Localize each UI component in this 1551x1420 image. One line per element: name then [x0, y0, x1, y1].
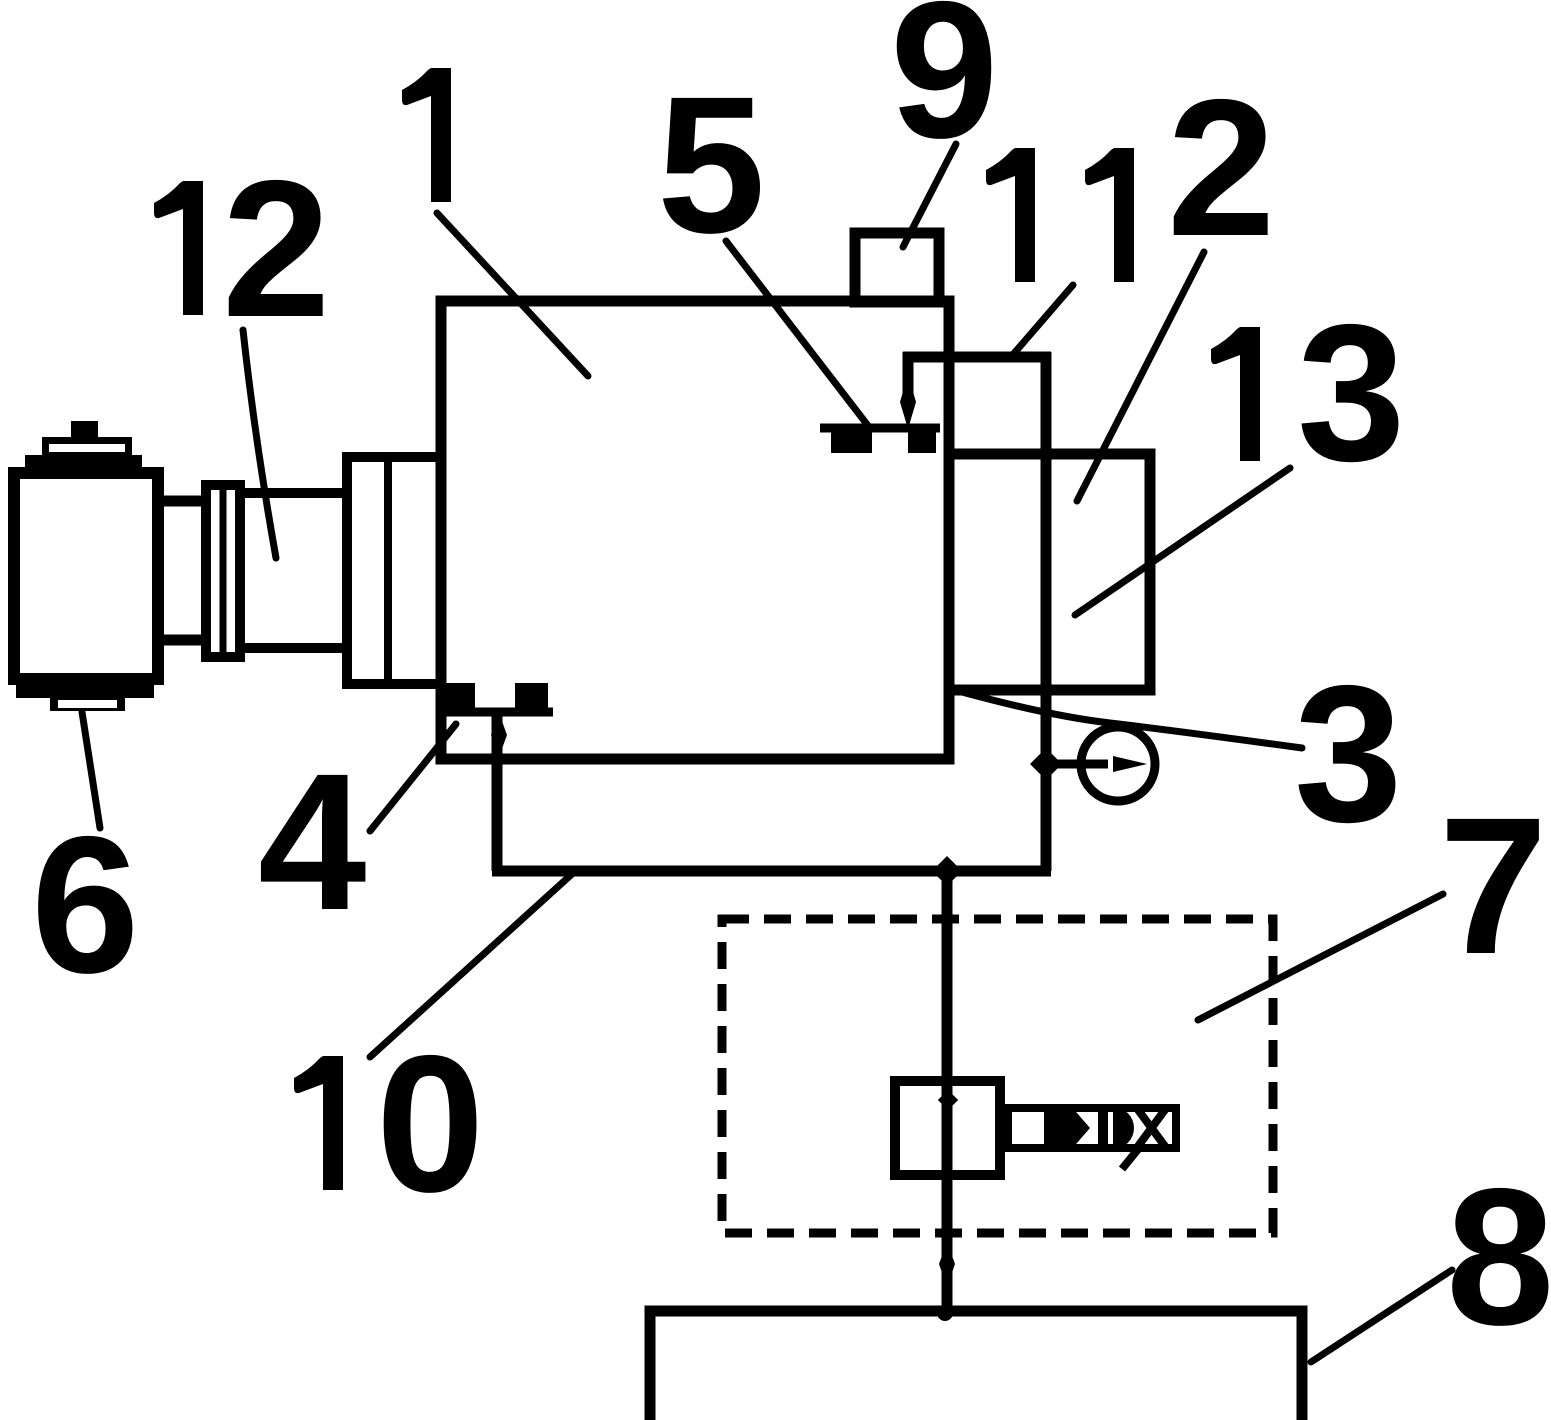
- svg-text:6: 6: [31, 796, 139, 1014]
- svg-text:3: 3: [1297, 284, 1405, 502]
- svg-text:5: 5: [657, 56, 765, 274]
- svg-text:2: 2: [1167, 59, 1275, 277]
- svg-text:9: 9: [890, 0, 998, 179]
- svg-text:2: 2: [222, 140, 330, 358]
- svg-text:4: 4: [258, 733, 366, 951]
- svg-text:0: 0: [376, 1015, 484, 1233]
- svg-text:3: 3: [1294, 645, 1402, 863]
- svg-text:8: 8: [1446, 1148, 1551, 1366]
- svg-text:7: 7: [1439, 777, 1547, 995]
